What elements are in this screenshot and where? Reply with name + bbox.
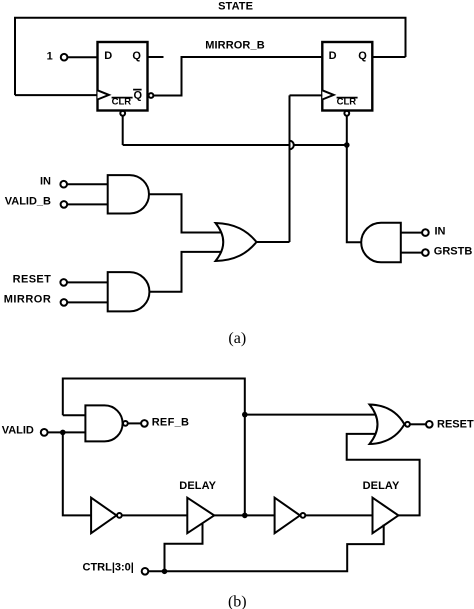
and-gate U5 (mirrored) [361, 223, 401, 263]
wire U5 input GRSTB stub [401, 252, 422, 254]
wire U5 input IN stub [401, 232, 422, 234]
svg-text:GRSTB: GRSTB [434, 246, 473, 258]
bubble FF2 CLR input [344, 111, 349, 116]
svg-text:IN: IN [40, 176, 51, 188]
svg-text:IN: IN [435, 225, 446, 237]
svg-text:MIRROR_B: MIRROR_B [205, 40, 264, 52]
svg-text:Q: Q [132, 50, 141, 62]
svg-text:REF_B: REF_B [152, 417, 190, 429]
svg-text:Q: Q [134, 89, 143, 101]
wire FF1 clock from rail [15, 94, 98, 96]
svg-text:D: D [329, 50, 337, 62]
wire FF2 clock from OR output vertical [290, 94, 323, 96]
svg-text:D: D [104, 50, 112, 62]
wire FF1 Q stub [148, 56, 164, 58]
svg-text:(a): (a) [228, 330, 246, 347]
wire (b) feedback top rail [63, 379, 245, 516]
wire G2 to delay buffer G3 [122, 514, 188, 516]
wire G6 output stub [410, 423, 426, 425]
wire NAND G1 top input [63, 414, 86, 416]
wire VALID down to inverter row [63, 432, 91, 515]
svg-text:RESET: RESET [437, 418, 474, 430]
svg-text:CTRL|3:0|: CTRL|3:0| [83, 561, 134, 573]
wire CLR rail left segment [123, 144, 290, 146]
terminal bubble IN (right) [422, 229, 429, 236]
wire U4 output to OR U6 bottom input [150, 252, 223, 292]
wire clock vertical (OR output up) [289, 95, 291, 242]
wire VALID to NAND G1 bottom input [48, 431, 86, 433]
wire CTRL to G5 control [148, 525, 383, 572]
bubble G4 output [301, 513, 306, 518]
terminal bubble VALID_B [61, 201, 68, 208]
wire G3 output to inverter G4 [214, 514, 274, 516]
wire FF2 Q to STATE rail [372, 56, 405, 58]
svg-text:VALID: VALID [2, 425, 34, 437]
junction dot feedback to OR [242, 412, 248, 418]
buffer G3 (delay) [187, 498, 214, 534]
and-gate U4 [108, 272, 150, 311]
wire MIRROR_B: FF1 QB to FF2 D [153, 57, 322, 96]
wire G1 output stub [128, 422, 141, 424]
terminal bubble REF_B [141, 420, 148, 427]
bubble FF1 QB output [149, 93, 154, 98]
svg-text:VALID_B: VALID_B [5, 195, 51, 207]
flip-flop U2 clock triangle [322, 90, 333, 99]
inverter G4 [275, 498, 300, 534]
wire G5 output feedback to OR G6 bottom input [347, 434, 420, 516]
terminal bubble GRSTB [422, 249, 429, 256]
svg-text:(b): (b) [228, 594, 247, 609]
svg-text:STATE: STATE [218, 1, 253, 13]
terminal bubble MIRROR [61, 299, 68, 306]
wire to OR G6 top input [245, 414, 375, 416]
flip-flop U2 body [322, 42, 372, 111]
junction dot CLR net [344, 142, 350, 148]
svg-text:DELAY: DELAY [179, 480, 216, 492]
wire CLR rail right segment [294, 144, 347, 146]
svg-text:RESET: RESET [13, 274, 52, 286]
flip-flop U1 clock triangle [98, 90, 109, 99]
junction dot VALID net [60, 430, 66, 436]
wire junction down to gate U5 output [347, 145, 362, 242]
wire IN to AND U3 [67, 183, 108, 185]
terminal bubble RESET [60, 279, 67, 286]
wire G4 to delay buffer G5 [305, 514, 372, 516]
wire VALID_B to AND U3 [67, 203, 108, 205]
wire STATE feedback rail [15, 18, 406, 95]
wire MIRROR to AND U4 [67, 301, 108, 303]
svg-text:1: 1 [47, 50, 53, 62]
terminal bubble IN [60, 181, 67, 188]
junction dot chain net [242, 513, 248, 519]
wire G3 control stub [165, 523, 203, 572]
terminal bubble CTRL [142, 568, 149, 575]
and-gate U3 [108, 175, 149, 213]
wire U6 output to clock vertical [257, 241, 290, 243]
terminal bubble VALID [41, 429, 48, 436]
nand-gate G1 [85, 405, 122, 441]
junction dot CTRL net [162, 569, 168, 575]
terminal bubble input 1 [61, 54, 68, 61]
bubble G2 output [117, 513, 122, 518]
svg-text:DELAY: DELAY [363, 480, 400, 492]
wire hop over clock vertical [290, 141, 294, 150]
wire RESET to AND U4 [67, 281, 108, 283]
flip-flop U1 body [98, 42, 148, 111]
wire 1 to FF1 D [67, 56, 97, 58]
terminal bubble RESET out [426, 421, 433, 428]
or-gate G6 [370, 405, 405, 445]
bubble G1 output [123, 421, 128, 426]
bubble G6 output [405, 422, 410, 427]
or-gate U6 [216, 223, 257, 261]
wire FF1 CLR down to CLR rail [122, 116, 124, 145]
wire FF2 CLR down to junction [346, 116, 348, 145]
wire U3 output to OR U6 top input [149, 194, 222, 232]
svg-text:Q: Q [358, 50, 367, 62]
buffer G5 (delay) [373, 498, 399, 534]
svg-text:MIRROR: MIRROR [4, 294, 52, 306]
inverter G2 [91, 498, 116, 534]
bubble FF1 CLR input [120, 111, 125, 116]
